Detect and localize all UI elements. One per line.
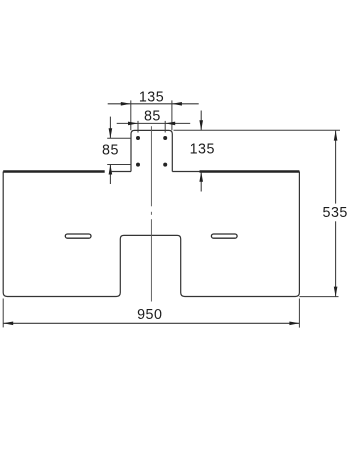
dim 85 top arrows	[128, 122, 138, 126]
extension lines	[3, 100, 340, 327]
extension line tab top level	[174, 129, 341, 131]
hole bottom-left	[136, 163, 140, 167]
dim 535 arrows	[334, 131, 338, 141]
centerline lower segment	[150, 219, 152, 301]
hole top-left	[136, 136, 140, 140]
extension line plate left edge	[2, 299, 4, 328]
centerline dash	[150, 212, 152, 215]
top edge thick left	[3, 170, 105, 173]
top edge thick right	[200, 170, 300, 173]
dimension line 135 right upper segment	[200, 111, 202, 131]
dimension line 85 left lower segment	[109, 165, 111, 185]
svg-text:135: 135	[190, 141, 215, 157]
top edge thin segment right of tab	[172, 171, 199, 173]
extension line tab left edge	[130, 100, 132, 130]
plate outline	[3, 172, 299, 297]
slot left	[65, 234, 91, 238]
dim 85 left arrows	[109, 128, 113, 138]
slot right	[211, 234, 237, 238]
dim 950 arrows	[3, 322, 13, 326]
arrowheads	[3, 102, 337, 325]
extension line lower hole row	[107, 164, 131, 166]
dimension line 135 top	[108, 103, 199, 105]
extension line plate bottom level	[299, 296, 338, 298]
svg-text:535: 535	[323, 205, 348, 221]
centerline	[150, 126, 152, 301]
tab outline	[131, 130, 172, 171]
extension line plate right edge	[298, 299, 300, 328]
extension line upper hole row	[107, 137, 131, 139]
extension tick left hole column	[137, 121, 139, 133]
hole top-right	[163, 136, 167, 140]
dimension line 135 right lower segment	[200, 172, 202, 192]
dimension line 535 upper segment	[335, 131, 337, 204]
dimension line 535 lower segment	[335, 221, 337, 296]
dim 135 top arrows	[121, 102, 131, 106]
dim 135 right arrows	[199, 120, 203, 130]
svg-text:85: 85	[144, 108, 161, 124]
dimension line 85 left upper segment	[109, 117, 111, 139]
hole bottom-right	[163, 163, 167, 167]
extension tick right hole column	[164, 121, 166, 133]
svg-text:950: 950	[137, 307, 162, 323]
svg-text:85: 85	[102, 143, 119, 159]
centerline upper segment	[150, 126, 152, 206]
dimension lines	[3, 104, 335, 323]
dimension line 950	[3, 322, 299, 324]
dimension line 85 top	[117, 122, 191, 124]
top edge thin segment left of tab	[112, 171, 131, 173]
svg-text:135: 135	[139, 90, 164, 106]
extension line tab right edge	[171, 100, 173, 130]
